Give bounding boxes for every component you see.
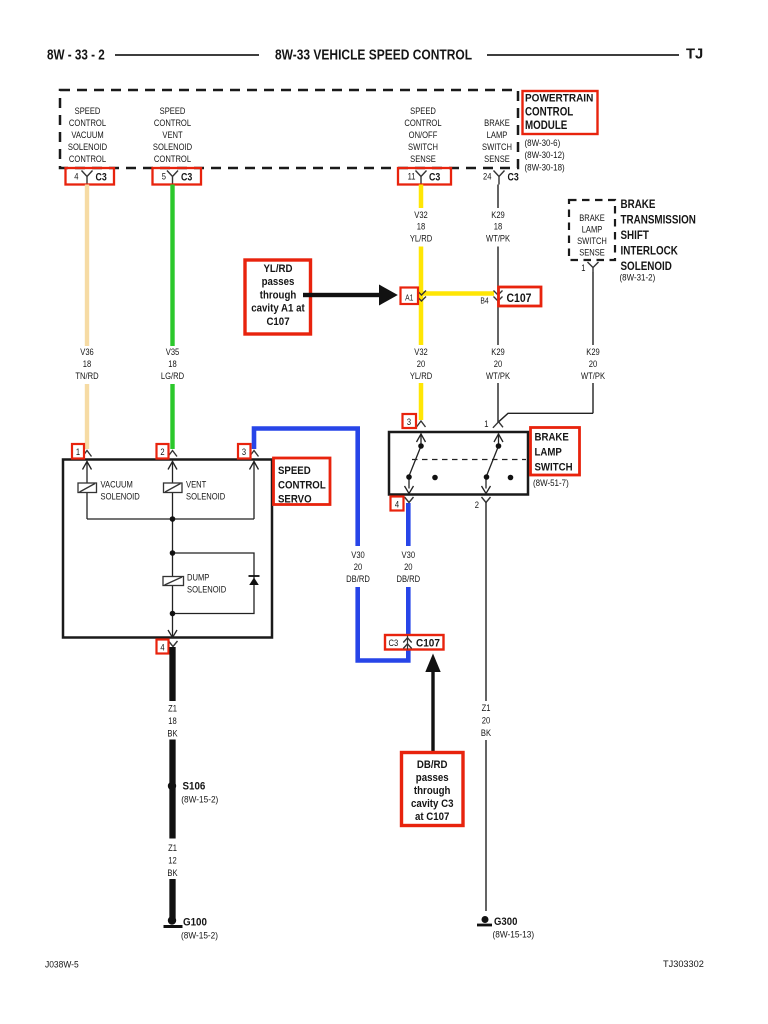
- svg-text:LAMP: LAMP: [535, 446, 562, 459]
- svg-text:passes: passes: [416, 773, 449, 785]
- svg-text:SPEED: SPEED: [278, 464, 311, 477]
- svg-text:LAMP: LAMP: [582, 224, 603, 235]
- svg-text:Z1: Z1: [168, 703, 177, 714]
- svg-text:DUMP: DUMP: [187, 572, 210, 583]
- svg-text:V35: V35: [166, 346, 180, 357]
- svg-text:1: 1: [484, 418, 488, 429]
- svg-text:INTERLOCK: INTERLOCK: [621, 245, 678, 258]
- svg-text:3: 3: [242, 446, 246, 457]
- svg-text:18: 18: [168, 358, 177, 369]
- svg-text:SWITCH: SWITCH: [482, 141, 512, 152]
- svg-text:through: through: [260, 290, 297, 302]
- svg-text:CONTROL: CONTROL: [69, 153, 106, 164]
- svg-text:1: 1: [581, 262, 585, 273]
- svg-text:C107: C107: [416, 637, 440, 650]
- svg-text:DB/RD: DB/RD: [396, 573, 420, 584]
- svg-text:V32: V32: [414, 346, 428, 357]
- svg-text:20: 20: [404, 561, 413, 572]
- svg-text:SHIFT: SHIFT: [621, 229, 650, 242]
- svg-text:passes: passes: [262, 277, 295, 289]
- svg-text:CONTROL: CONTROL: [525, 106, 574, 119]
- svg-text:TJ303302: TJ303302: [663, 959, 704, 969]
- svg-text:SENSE: SENSE: [410, 153, 436, 164]
- svg-text:J038W-5: J038W-5: [45, 959, 79, 969]
- svg-text:8W-33 VEHICLE SPEED CONTROL: 8W-33 VEHICLE SPEED CONTROL: [275, 46, 472, 63]
- svg-text:VENT: VENT: [162, 129, 183, 140]
- svg-text:cavity A1 at: cavity A1 at: [251, 303, 305, 315]
- svg-text:SWITCH: SWITCH: [535, 461, 573, 474]
- svg-text:VACUUM: VACUUM: [71, 129, 103, 140]
- svg-text:A1: A1: [405, 293, 413, 303]
- svg-text:cavity C3: cavity C3: [411, 799, 454, 811]
- svg-text:YL/RD: YL/RD: [263, 264, 293, 276]
- svg-text:BRAKE: BRAKE: [621, 198, 656, 211]
- svg-text:SPEED: SPEED: [160, 105, 186, 116]
- svg-text:V36: V36: [80, 346, 94, 357]
- svg-text:K29: K29: [586, 346, 600, 357]
- svg-text:CONTROL: CONTROL: [404, 117, 441, 128]
- svg-text:12: 12: [168, 855, 177, 866]
- svg-text:K29: K29: [491, 346, 505, 357]
- svg-text:(8W-30-12): (8W-30-12): [525, 149, 565, 160]
- svg-text:TRANSMISSION: TRANSMISSION: [621, 214, 696, 227]
- svg-text:C107: C107: [507, 292, 532, 305]
- svg-text:WT/PK: WT/PK: [486, 233, 510, 244]
- svg-text:VACUUM: VACUUM: [101, 479, 133, 490]
- svg-text:DB/RD: DB/RD: [346, 573, 370, 584]
- svg-text:POWERTRAIN: POWERTRAIN: [525, 92, 593, 105]
- svg-text:(8W-15-2): (8W-15-2): [181, 930, 218, 941]
- svg-text:BK: BK: [167, 728, 177, 739]
- svg-text:MODULE: MODULE: [525, 119, 567, 132]
- svg-text:CONTROL: CONTROL: [154, 117, 191, 128]
- svg-text:S106: S106: [183, 781, 206, 793]
- svg-text:SOLENOID: SOLENOID: [186, 491, 225, 502]
- svg-text:(8W-15-13): (8W-15-13): [493, 929, 535, 940]
- svg-text:CONTROL: CONTROL: [278, 479, 326, 492]
- svg-text:(8W-31-2): (8W-31-2): [620, 272, 656, 283]
- svg-text:18: 18: [494, 221, 503, 232]
- svg-text:4: 4: [160, 642, 164, 653]
- svg-text:SENSE: SENSE: [484, 153, 510, 164]
- svg-text:Z1: Z1: [168, 842, 177, 853]
- svg-text:SOLENOID: SOLENOID: [187, 584, 226, 595]
- svg-text:V30: V30: [402, 549, 416, 560]
- svg-text:20: 20: [589, 358, 598, 369]
- svg-text:G100: G100: [183, 917, 207, 929]
- svg-text:(8W-30-6): (8W-30-6): [525, 137, 561, 148]
- svg-text:20: 20: [494, 358, 503, 369]
- svg-text:C3: C3: [181, 172, 193, 184]
- svg-text:18: 18: [417, 221, 426, 232]
- svg-text:SOLENOID: SOLENOID: [101, 491, 140, 502]
- svg-text:LG/RD: LG/RD: [161, 370, 184, 381]
- svg-text:SPEED: SPEED: [410, 105, 436, 116]
- svg-text:K29: K29: [491, 209, 505, 220]
- svg-text:through: through: [414, 786, 451, 798]
- svg-text:18: 18: [168, 715, 177, 726]
- svg-text:B4: B4: [480, 296, 489, 306]
- svg-text:SPEED: SPEED: [75, 105, 101, 116]
- svg-text:BK: BK: [481, 727, 491, 738]
- svg-text:BRAKE: BRAKE: [535, 431, 569, 444]
- svg-text:SWITCH: SWITCH: [408, 141, 438, 152]
- svg-text:11: 11: [408, 171, 416, 182]
- svg-text:YL/RD: YL/RD: [410, 370, 432, 381]
- svg-text:Z1: Z1: [482, 702, 491, 713]
- svg-text:(8W-51-7): (8W-51-7): [533, 477, 569, 488]
- svg-text:3: 3: [407, 416, 411, 427]
- svg-text:V32: V32: [414, 209, 428, 220]
- svg-text:YL/RD: YL/RD: [410, 233, 432, 244]
- svg-text:(8W-15-2): (8W-15-2): [181, 794, 218, 805]
- svg-text:4: 4: [395, 499, 399, 510]
- svg-text:WT/PK: WT/PK: [486, 370, 510, 381]
- svg-text:20: 20: [417, 358, 426, 369]
- svg-text:C3: C3: [508, 172, 520, 184]
- svg-text:2: 2: [475, 499, 479, 510]
- svg-text:SWITCH: SWITCH: [577, 235, 607, 246]
- svg-text:SERVO: SERVO: [278, 493, 312, 506]
- svg-text:DB/RD: DB/RD: [417, 760, 448, 772]
- svg-text:CONTROL: CONTROL: [154, 153, 191, 164]
- svg-text:(8W-30-18): (8W-30-18): [525, 162, 565, 173]
- svg-text:8W - 33 - 2: 8W - 33 - 2: [47, 46, 105, 63]
- svg-text:V30: V30: [351, 549, 365, 560]
- svg-text:SENSE: SENSE: [579, 247, 605, 258]
- svg-text:C3: C3: [96, 172, 108, 184]
- svg-text:1: 1: [76, 446, 80, 457]
- svg-text:2: 2: [160, 446, 164, 457]
- svg-text:4: 4: [74, 171, 78, 182]
- svg-text:C3: C3: [389, 637, 399, 648]
- svg-text:BK: BK: [167, 867, 177, 878]
- svg-text:VENT: VENT: [186, 479, 207, 490]
- svg-text:SOLENOID: SOLENOID: [68, 141, 107, 152]
- svg-text:20: 20: [354, 561, 363, 572]
- svg-text:SOLENOID: SOLENOID: [153, 141, 192, 152]
- svg-text:C107: C107: [266, 316, 289, 328]
- svg-text:18: 18: [83, 358, 92, 369]
- svg-text:at C107: at C107: [415, 812, 450, 824]
- svg-text:TJ: TJ: [686, 47, 703, 63]
- svg-text:5: 5: [162, 171, 166, 182]
- svg-text:TN/RD: TN/RD: [75, 370, 98, 381]
- svg-text:WT/PK: WT/PK: [581, 370, 605, 381]
- svg-text:20: 20: [482, 715, 491, 726]
- svg-text:LAMP: LAMP: [487, 129, 508, 140]
- svg-text:C3: C3: [429, 172, 441, 184]
- svg-text:BRAKE: BRAKE: [579, 212, 605, 223]
- svg-text:G300: G300: [494, 916, 518, 928]
- svg-text:24: 24: [483, 171, 492, 182]
- svg-text:CONTROL: CONTROL: [69, 117, 106, 128]
- svg-text:BRAKE: BRAKE: [484, 117, 510, 128]
- svg-text:ON/OFF: ON/OFF: [409, 129, 438, 140]
